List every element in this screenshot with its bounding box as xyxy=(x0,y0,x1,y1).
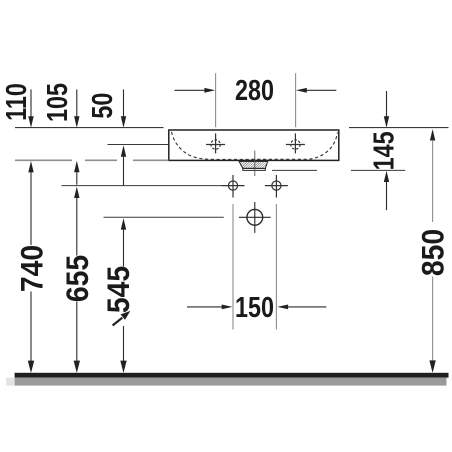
tap hole right (cross circle) xyxy=(286,133,305,153)
150 extension line left xyxy=(232,204,234,330)
545 leader NE arrow xyxy=(113,311,131,326)
800 level line (50 dim reference) xyxy=(108,144,169,146)
tap hole left (cross circle) xyxy=(206,133,225,153)
fixing hole right (cross circle) xyxy=(265,175,288,198)
dimension 145 bottom arrow xyxy=(384,171,389,210)
svg-text:740: 740 xyxy=(15,245,50,292)
dimension 50 top arrow xyxy=(121,89,126,127)
floor gray band xyxy=(15,378,447,386)
svg-text:150: 150 xyxy=(235,291,274,324)
150 extension line right xyxy=(275,204,277,330)
dimension 150 arrows xyxy=(187,305,326,310)
dimension line 545 (with 50 lower arrow) xyxy=(120,145,126,373)
svg-text:545: 545 xyxy=(102,266,137,313)
fixing hole left (cross circle) xyxy=(222,175,245,198)
dimension 145 top arrow xyxy=(384,91,389,128)
545 level line (to drain) xyxy=(104,216,224,218)
280 extension line left (tap hole axis) xyxy=(215,73,217,127)
svg-text:655: 655 xyxy=(61,255,96,302)
dimension line 655 (with 105 lower arrow) xyxy=(74,161,80,373)
svg-text:105: 105 xyxy=(41,83,74,122)
floor black line xyxy=(15,373,449,378)
washbasin outline (front elevation) xyxy=(169,130,339,160)
dimension 280 arrows xyxy=(175,88,337,93)
dimension 105 top arrow xyxy=(74,89,79,127)
705 level line right (145 dim reference) xyxy=(272,169,317,171)
dimension 110 top arrow xyxy=(28,89,33,127)
floor light end cap xyxy=(6,378,14,386)
svg-text:110: 110 xyxy=(0,83,32,121)
rim height extension line left xyxy=(15,127,164,129)
dimension line 850 xyxy=(429,129,435,373)
740 level dashed gray line xyxy=(15,159,72,161)
dimension line 740 (with 110 lower arrow) xyxy=(28,161,34,373)
rim height extension line right xyxy=(349,127,449,129)
655 level line (to fixing holes) xyxy=(62,185,222,187)
svg-text:850: 850 xyxy=(416,229,451,276)
drain trapezoid with hatch xyxy=(234,158,272,170)
svg-text:280: 280 xyxy=(235,74,274,107)
drain outlet circle (cross circle) xyxy=(239,202,271,233)
svg-text:145: 145 xyxy=(367,131,400,170)
basin inner bowl dashed contour xyxy=(172,132,338,160)
280 extension line right (tap hole axis) xyxy=(295,73,297,127)
svg-text:50: 50 xyxy=(86,93,119,119)
drain centerline xyxy=(254,151,256,176)
